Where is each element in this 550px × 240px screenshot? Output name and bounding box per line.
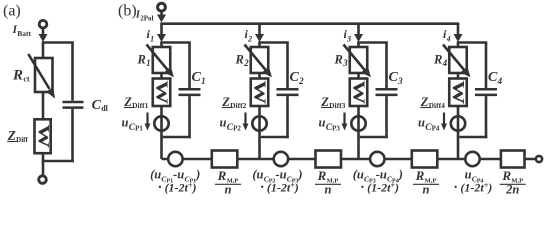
voltage source u_CP1 [154, 116, 168, 130]
impedance Z_Diff1 (Warburg box) [153, 79, 171, 107]
wire Z_Diff4 to source u_CP4 to ladder [457, 106, 460, 159]
svg-text:W: W [250, 80, 269, 105]
capacitor C_4 [485, 43, 488, 89]
node: bottom junction (a) [42, 160, 74, 163]
resistor R_2 (adjustable) [251, 47, 269, 73]
arrow u_CP3 [343, 113, 345, 125]
terminal top (b) [158, 3, 166, 11]
wire top rail [160, 22, 459, 25]
terminal top (a) [39, 20, 47, 28]
resistor R_1 (adjustable) [153, 47, 171, 73]
resistor box R_MP/n #2 [316, 151, 342, 168]
node: branch 4 top junction [457, 41, 488, 44]
capacitor C_3 [385, 43, 388, 89]
resistor R_3 (adjustable) [350, 47, 368, 73]
svg-text:W: W [349, 80, 368, 105]
impedance Z_Diff3 (Warburg box) [350, 79, 368, 107]
wire Z_Diff1 to source u_CP1 to ladder [160, 106, 163, 159]
voltage source u_CP4 [451, 116, 465, 130]
wire junction to R_2 [258, 43, 261, 48]
terminal bottom (a) [39, 176, 47, 184]
svg-text:(a): (a) [3, 3, 21, 20]
wire capacitor C_2 rejoin [261, 136, 289, 139]
resistor box R_MP/2n #4 [501, 151, 525, 168]
wire R_2 to Z_Diff2 [258, 73, 261, 79]
source node circle 3 in ladder [370, 152, 384, 166]
resistor R_ct (adjustable) [35, 58, 53, 92]
wire + current arrow I_2Pol [160, 10, 163, 16]
svg-text:n: n [225, 183, 232, 197]
impedance Z_Diff4 (Warburg box) [449, 79, 467, 107]
wire Z_Diff2 to source u_CP2 to ladder [258, 106, 261, 159]
svg-text:2n: 2n [505, 183, 519, 197]
node: top junction (a) [42, 41, 74, 44]
wire capacitor C_3 rejoin [360, 136, 388, 139]
resistor box R_MP/n #3 [412, 151, 438, 168]
svg-text:n: n [423, 183, 430, 197]
wire junction to R_1 [160, 43, 163, 48]
resistor R_4 (adjustable) [449, 47, 467, 73]
wire + current arrow i_2 [258, 24, 261, 36]
arrow u_CP2 [244, 113, 246, 125]
svg-text:W: W [449, 80, 468, 105]
wire capacitor C_4 rejoin [459, 136, 487, 139]
arrow u_CP1 [146, 113, 148, 125]
node: branch 2 top junction [258, 41, 289, 44]
svg-text:W: W [152, 80, 171, 105]
wire R_3 to Z_Diff3 [357, 73, 360, 79]
capacitor C_2 [286, 43, 289, 89]
impedance Z_Diff (Warburg box) [35, 119, 51, 153]
voltage source u_CP3 [351, 116, 365, 130]
wire + current arrow i_3 [357, 24, 360, 36]
wire + current arrow i_4 [457, 24, 460, 36]
wire junction to R_ct [42, 43, 45, 59]
source node circle 2 in ladder [274, 152, 288, 166]
wire Z_Diff3 to source u_CP3 to ladder [357, 106, 360, 159]
svg-text:n: n [325, 183, 332, 197]
wire capacitor C_1 rejoin [163, 136, 191, 139]
voltage source u_CP2 [252, 116, 266, 130]
node: branch 1 top junction [160, 41, 191, 44]
wire R_4 to Z_Diff4 [457, 73, 460, 79]
wire + current arrow i_1 [160, 24, 163, 36]
source node circle 1 in ladder [168, 152, 182, 166]
node: branch 3 top junction [357, 41, 388, 44]
capacitor C_dl [71, 43, 74, 101]
wire Z_Diff to bottom node [42, 153, 45, 176]
svg-text:(b): (b) [118, 3, 137, 20]
wire + current arrow I_Batt [42, 28, 45, 36]
wire R_ct to Z_Diff [42, 93, 45, 120]
impedance Z_Diff2 (Warburg box) [251, 79, 269, 107]
terminal right (b) [536, 156, 542, 162]
resistor box R_MP/n #1 [212, 151, 238, 168]
source node circle 4 in ladder [465, 152, 479, 166]
svg-text:W: W [35, 125, 52, 149]
capacitor C_1 [188, 43, 191, 89]
wire R_1 to Z_Diff1 [160, 73, 163, 79]
wire junction to R_4 [457, 43, 460, 48]
arrow u_CP4 [443, 113, 445, 125]
wire junction to R_3 [357, 43, 360, 48]
wire bottom ladder rail [162, 158, 537, 161]
